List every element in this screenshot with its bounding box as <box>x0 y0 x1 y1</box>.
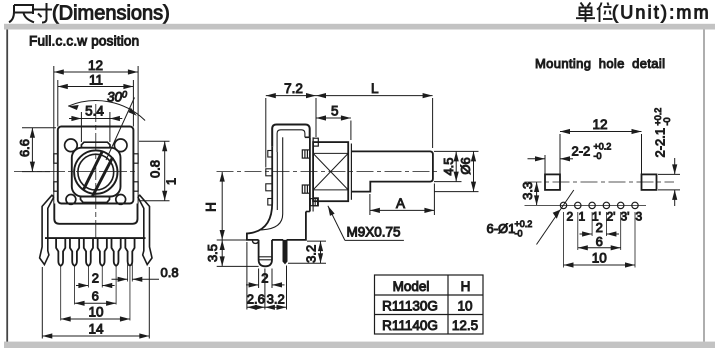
svg-text:10: 10 <box>88 305 103 320</box>
foot bottom nub <box>252 240 258 244</box>
right tabs <box>133 154 138 163</box>
svg-text:0.8: 0.8 <box>161 265 179 280</box>
leader 6-dia-1 <box>537 190 574 245</box>
svg-text:R11140G: R11140G <box>382 318 438 333</box>
svg-text:Ø6: Ø6 <box>458 157 473 174</box>
right wing <box>138 195 152 264</box>
svg-text:300: 300 <box>107 90 127 105</box>
svg-text:14: 14 <box>88 322 104 337</box>
side foot inner curve <box>261 214 283 230</box>
plate bottom tab <box>310 199 317 206</box>
boss bottom tab <box>81 197 110 203</box>
side rear pin (dark) <box>283 240 286 263</box>
svg-text:2-2: 2-2 <box>572 143 591 158</box>
knob inner circle <box>78 154 114 190</box>
rotor boss <box>72 148 121 197</box>
title 寸 (hand-drawn CJK) <box>34 3 52 23</box>
boss top tab <box>81 142 110 148</box>
svg-text:2-2.1: 2-2.1 <box>653 128 668 158</box>
dim 3.5 <box>217 240 259 266</box>
dim 0.8 / 1 (front right) <box>139 141 170 201</box>
dim 11 <box>58 80 134 127</box>
pin extension lines <box>61 263 133 321</box>
svg-text:M9X0.75: M9X0.75 <box>347 225 401 240</box>
dim 10 (front pins) <box>61 318 130 320</box>
svg-text:(Dimensions): (Dimensions) <box>52 3 170 25</box>
side left tabs <box>268 151 272 158</box>
dim 6 (front pins) <box>75 302 117 304</box>
dim 12 (front top) <box>54 71 138 73</box>
bushing flange bottom <box>313 198 318 206</box>
svg-text:0.8: 0.8 <box>147 160 162 178</box>
corner hole bottom-right <box>116 195 126 205</box>
corner hole top-left <box>65 139 78 152</box>
dim 2 (front pins) <box>76 285 115 287</box>
svg-text:+0.2: +0.2 <box>594 142 612 152</box>
svg-text:3.2: 3.2 <box>304 245 319 263</box>
svg-text:6.6: 6.6 <box>17 139 32 157</box>
svg-text:H: H <box>461 279 471 294</box>
front base block <box>54 204 137 224</box>
svg-text:(Unit):mm: (Unit):mm <box>612 3 711 23</box>
svg-text:R11130G: R11130G <box>382 299 438 314</box>
svg-text:A: A <box>396 196 405 211</box>
dim 12 (slots) <box>560 132 642 175</box>
svg-text:+0.2: +0.2 <box>515 219 533 229</box>
svg-text:3.3: 3.3 <box>520 182 535 200</box>
svg-text:2: 2 <box>92 271 99 286</box>
dim 2 (side pin) <box>246 269 285 289</box>
bushing mounting plate <box>309 137 311 211</box>
dim 14 <box>42 267 149 339</box>
dim 3.2 (right vertical) <box>288 241 326 263</box>
side body left edge <box>271 147 273 203</box>
dim 5 (bushing length) <box>316 118 351 140</box>
detail dims 2 6 10 <box>564 212 636 268</box>
dim 6.6 <box>22 128 56 172</box>
shaft <box>351 151 433 191</box>
corner hole bottom-left <box>66 195 76 205</box>
front body outline <box>58 127 134 204</box>
svg-text:3': 3' <box>621 210 630 224</box>
dim 2-2 slot width <box>528 155 574 174</box>
screwdriver slot line 2 <box>93 157 113 196</box>
side tab lines (12 width) <box>53 66 55 204</box>
plate left tabs <box>302 150 310 193</box>
front vertical centerline <box>95 104 97 238</box>
svg-text:H: H <box>204 202 219 212</box>
svg-text:5: 5 <box>331 104 339 119</box>
dim 2-2.1 (right, rotated) <box>658 158 680 206</box>
svg-text:11: 11 <box>89 73 103 88</box>
svg-text:3: 3 <box>636 210 643 224</box>
svg-text:6-Ø1: 6-Ø1 <box>487 221 516 236</box>
side center pin <box>259 240 272 266</box>
left border line <box>6 30 8 342</box>
bushing end ring <box>350 144 352 200</box>
side cover outline <box>272 125 310 147</box>
dim L <box>316 96 433 148</box>
title 单 (hand-drawn CJK) <box>576 3 595 23</box>
svg-text:3.2: 3.2 <box>267 292 285 307</box>
dim H <box>217 172 248 240</box>
holes construction line <box>525 204 647 206</box>
dim 4.5 <box>434 151 479 181</box>
side centerline <box>217 171 441 173</box>
svg-text:10: 10 <box>457 299 472 314</box>
header gray bar <box>4 24 715 30</box>
svg-text:Mounting hole detail: Mounting hole detail <box>535 56 665 71</box>
bottom gray bar <box>4 342 715 348</box>
foot bottom middle <box>272 239 283 241</box>
30 deg arc <box>68 101 145 121</box>
svg-text:6: 6 <box>596 234 603 249</box>
title 尺 (hand-drawn CJK) <box>9 5 34 22</box>
svg-text:-0: -0 <box>515 229 523 239</box>
svg-text:4.5: 4.5 <box>441 157 456 175</box>
right slot <box>642 174 657 190</box>
svg-text:5.4: 5.4 <box>85 104 104 119</box>
front pin header plate <box>45 237 146 239</box>
title 位 (hand-drawn CJK) <box>597 3 613 23</box>
cover to plate link <box>305 136 310 138</box>
svg-text:2: 2 <box>567 210 574 224</box>
left wing <box>40 195 54 264</box>
right border line <box>703 30 705 342</box>
dim 0.8 (front pin width) <box>112 278 160 280</box>
slot axis thin line <box>106 98 135 161</box>
svg-text:10: 10 <box>592 251 607 266</box>
dim 5.4 <box>69 112 122 142</box>
foot bottom right <box>287 212 306 240</box>
svg-text:-0: -0 <box>662 117 672 125</box>
svg-text:1: 1 <box>163 178 178 185</box>
svg-text:12: 12 <box>88 58 103 73</box>
dim dia 6 <box>434 151 479 191</box>
svg-text:3.5: 3.5 <box>205 244 220 262</box>
svg-text:1: 1 <box>579 210 586 224</box>
detail centerline <box>525 181 675 183</box>
dim A <box>370 184 435 216</box>
svg-text:7.2: 7.2 <box>284 81 303 96</box>
dim 7.2 <box>266 96 316 168</box>
svg-text:2': 2' <box>607 210 616 224</box>
side foot outer curve <box>247 203 272 240</box>
svg-text:2.6: 2.6 <box>247 292 265 307</box>
bushing threaded body <box>313 142 348 201</box>
svg-text:12: 12 <box>592 117 607 132</box>
svg-text:Full.c.c.w position: Full.c.c.w position <box>29 34 139 49</box>
dims 2.6 / 3.2 bottom <box>247 242 287 310</box>
svg-text:2: 2 <box>596 220 603 235</box>
svg-text:12.5: 12.5 <box>452 318 478 333</box>
side inner verticals <box>276 152 278 210</box>
left tabs <box>54 154 58 163</box>
corner hole top-right <box>114 139 127 152</box>
mounting holes (6) <box>560 202 638 208</box>
svg-text:6: 6 <box>92 288 99 303</box>
front horizontal centerline <box>14 171 136 173</box>
bushing flange top <box>313 138 318 146</box>
left slot <box>545 174 560 190</box>
svg-text:L: L <box>371 81 379 96</box>
screwdriver slot line 1 <box>84 151 103 189</box>
dim 3.3 <box>536 182 538 205</box>
svg-text:-0: -0 <box>594 151 602 161</box>
pins front (6) <box>56 238 134 266</box>
side cover inner line <box>277 130 305 152</box>
svg-text:Model: Model <box>393 279 430 294</box>
knob outer circle <box>74 150 117 193</box>
